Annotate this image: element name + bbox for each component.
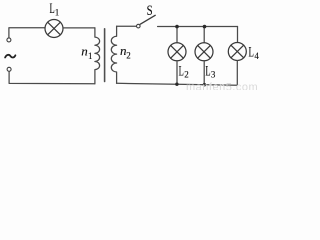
svg-text:4: 4 <box>254 51 259 61</box>
svg-text:2: 2 <box>126 51 131 61</box>
label n2 <box>120 43 131 60</box>
transformer core <box>104 29 106 82</box>
label n1 <box>81 44 92 61</box>
svg-text:L: L <box>179 63 184 79</box>
terminal A (top-left) <box>7 38 11 42</box>
lamp L4 <box>228 43 246 61</box>
switch S blade <box>140 15 155 24</box>
wire: secondary top to switch <box>117 25 137 27</box>
secondary winding n2 <box>111 26 116 83</box>
switch S pivot <box>137 24 141 28</box>
svg-text:n: n <box>81 44 88 59</box>
wire: lamp L1 to primary coil <box>64 27 95 29</box>
primary winding n1 <box>95 28 100 84</box>
lamp L1 <box>45 20 63 38</box>
wire: branch L3 top <box>203 27 205 43</box>
wire: primary bottom bus back to terminal B <box>9 72 95 84</box>
wire: branch L4 bottom <box>236 61 238 85</box>
wire: top bus from switch to lamp L4 corner <box>158 26 238 28</box>
svg-text:L: L <box>249 45 254 61</box>
junction dot J1 <box>175 25 179 29</box>
svg-text:L: L <box>205 63 210 79</box>
label L2 <box>179 63 189 79</box>
wire: bottom bus from secondary to L4 <box>117 83 238 85</box>
label L3 <box>205 63 216 79</box>
svg-text:S: S <box>147 3 153 19</box>
label L4 <box>249 45 260 61</box>
terminal B (bottom-left) <box>7 67 11 71</box>
svg-text:3: 3 <box>211 69 216 79</box>
svg-text:1: 1 <box>88 51 93 61</box>
wire: branch L4 top (corner) <box>237 27 239 43</box>
wire: branch L2 bottom <box>176 61 178 84</box>
junction dot J3 <box>175 83 178 86</box>
label L1 <box>50 1 60 17</box>
wire: branch L3 bottom <box>203 61 205 85</box>
svg-text:manfen5.com: manfen5.com <box>186 82 258 91</box>
junction dot J4 <box>203 83 206 86</box>
wire: terminal A up and right to lamp L1 <box>9 28 45 38</box>
lamp L2 <box>168 43 186 61</box>
junction dot J2 <box>203 25 207 29</box>
svg-text:1: 1 <box>55 7 60 17</box>
lamp L3 <box>195 43 213 61</box>
AC source symbol ~ <box>5 55 15 58</box>
svg-text:2: 2 <box>184 69 189 79</box>
wire: branch L2 top <box>176 27 178 43</box>
